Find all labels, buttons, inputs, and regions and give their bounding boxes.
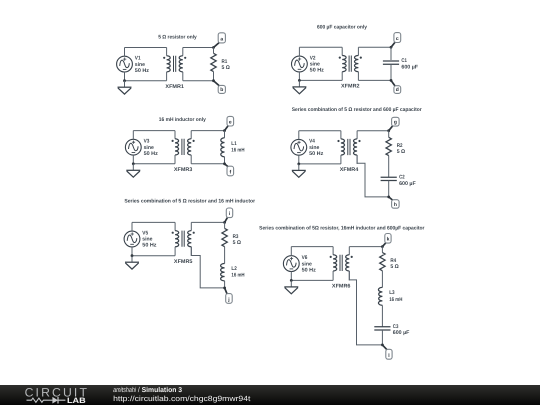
resistor R1	[211, 53, 216, 71]
wire stub to terminal i	[225, 217, 228, 223]
wire top rail primary	[125, 47, 167, 49]
wire L3-C3 series link	[381, 305, 383, 326]
svg-text:50 Hz: 50 Hz	[309, 151, 324, 157]
wire C3 bottom lead	[381, 330, 383, 345]
svg-text:e: e	[229, 120, 232, 126]
footer bar	[0, 385, 540, 406]
node g (terminal)	[392, 117, 400, 126]
wire top rail primary	[133, 130, 175, 132]
wire top rail secondary	[358, 46, 391, 48]
wire top rail secondary	[357, 130, 389, 132]
wire R4 top lead	[381, 247, 383, 253]
wire V1 bottom lead	[124, 72, 126, 81]
svg-text:5 Ω: 5 Ω	[397, 149, 406, 155]
node i junction	[223, 221, 226, 224]
wire L1 top lead	[224, 131, 226, 138]
svg-text:V6: V6	[302, 255, 308, 261]
wire L2 bottom lead	[224, 281, 226, 288]
svg-text:V3: V3	[144, 139, 150, 145]
wire R1 top lead	[213, 48, 215, 54]
node h (terminal)	[392, 200, 400, 209]
svg-text:Series combination of 5 Ω resi: Series combination of 5 Ω resistor and 6…	[292, 107, 422, 113]
svg-text:5 Ω: 5 Ω	[233, 240, 242, 246]
wire V5 top lead	[131, 222, 133, 231]
wire stub to terminal f	[225, 164, 229, 167]
svg-text:http://circuitlab.com/chgc8g9m: http://circuitlab.com/chgc8g9mwr94t	[113, 393, 251, 402]
transformer XFMR3	[172, 131, 195, 164]
wire top rail primary	[291, 246, 333, 248]
wire V6 bottom lead	[290, 272, 292, 281]
wire stub to terminal h	[389, 197, 394, 201]
svg-text:L2: L2	[231, 266, 236, 272]
ground	[292, 80, 306, 93]
wire stub to terminal j	[225, 288, 228, 295]
svg-text:50 Hz: 50 Hz	[144, 151, 159, 157]
node b (terminal)	[218, 85, 225, 93]
wire V2 bottom lead	[298, 72, 300, 81]
svg-text:amitshahi / Simulation 3: amitshahi / Simulation 3	[113, 385, 182, 393]
transformer XFMR6	[330, 247, 353, 281]
wire bottom rail secondary (dropped)	[349, 271, 382, 345]
svg-text:C3: C3	[393, 324, 399, 330]
node l junction	[381, 344, 384, 347]
wire V5 bottom lead	[131, 247, 133, 256]
inductor L3	[378, 287, 382, 305]
wire top rail primary	[132, 221, 175, 223]
node a (terminal)	[218, 33, 225, 43]
wire top rail primary	[299, 46, 342, 48]
node j junction	[223, 287, 226, 290]
svg-text:V2: V2	[310, 55, 316, 61]
node b junction	[212, 79, 215, 82]
svg-text:50 Hz: 50 Hz	[142, 243, 157, 249]
svg-text:XFMR3: XFMR3	[174, 167, 193, 173]
svg-text:5 Ω: 5 Ω	[390, 264, 399, 270]
svg-text:C1: C1	[401, 58, 407, 64]
voltage source V5 (sine)	[124, 231, 140, 247]
capacitor C2	[381, 177, 397, 180]
voltage source V4 (sine)	[291, 139, 307, 155]
ground	[292, 164, 306, 177]
svg-text:5 Ω resistor only: 5 Ω resistor only	[158, 34, 197, 40]
wire R1 bottom lead	[213, 72, 215, 81]
ground	[126, 164, 140, 177]
svg-text:16 mH: 16 mH	[231, 273, 244, 279]
logo resistor zigzag	[27, 398, 48, 402]
wire bottom rail secondary	[358, 79, 391, 81]
ground	[118, 81, 132, 94]
svg-text:h: h	[394, 202, 397, 208]
wire stub to terminal g	[389, 125, 394, 131]
wire C1 top lead	[390, 47, 392, 60]
wire V6 top lead	[290, 247, 292, 256]
node d (terminal)	[394, 86, 401, 94]
svg-text:c: c	[396, 36, 399, 42]
transformer XFMR1	[163, 48, 186, 81]
svg-text:k: k	[387, 237, 390, 243]
wire top rail secondary	[183, 47, 214, 49]
svg-text:50 Hz: 50 Hz	[302, 267, 317, 273]
svg-text:16 mH: 16 mH	[389, 297, 402, 303]
svg-text:g: g	[394, 120, 397, 126]
wire top rail secondary	[191, 221, 224, 223]
wire R3 top lead	[224, 222, 226, 228]
node f (terminal)	[227, 166, 234, 176]
wire R2-C2 series link	[388, 156, 390, 178]
node junction at V3/ground	[132, 162, 135, 165]
node i (terminal)	[226, 208, 232, 218]
svg-text:600 µF capacitor only: 600 µF capacitor only	[317, 24, 367, 30]
svg-text:XFMR2: XFMR2	[341, 84, 360, 90]
wire V4 top lead	[298, 131, 300, 140]
wire bottom rail primary	[132, 255, 175, 257]
wire C2 bottom lead	[388, 181, 390, 197]
voltage source V6 (sine)	[283, 256, 299, 272]
svg-text:600 µF: 600 µF	[401, 65, 418, 71]
wire top rail primary	[299, 130, 341, 132]
wire bottom rail secondary	[191, 163, 224, 165]
wire V2 top lead	[298, 47, 300, 56]
svg-text:V4: V4	[309, 139, 315, 145]
wire bottom rail primary	[291, 279, 333, 281]
wire C1 bottom lead	[390, 64, 392, 80]
voltage source V3 (sine)	[125, 139, 141, 155]
svg-text:50 Hz: 50 Hz	[135, 68, 150, 74]
wire stub to terminal d	[391, 80, 396, 86]
wire bottom rail secondary	[183, 80, 214, 82]
node g junction	[387, 129, 390, 132]
wire R4-L3 series link	[381, 271, 383, 288]
svg-text:XFMR6: XFMR6	[332, 284, 351, 290]
node junction at V2/ground	[298, 79, 301, 82]
node c (terminal)	[394, 33, 401, 43]
node junction at V5/ground	[131, 254, 134, 257]
inductor L1	[221, 138, 225, 157]
node f junction	[223, 162, 226, 165]
ground	[125, 256, 139, 269]
svg-text:V1: V1	[135, 56, 141, 62]
wire bottom rail primary	[125, 80, 167, 82]
wire stub to terminal l	[382, 345, 387, 350]
svg-text:XFMR1: XFMR1	[165, 84, 184, 90]
wire stub to terminal k	[382, 242, 386, 246]
wire V3 top lead	[132, 131, 134, 140]
svg-text:Series combination of 5 Ω resi: Series combination of 5 Ω resistor and 1…	[124, 199, 255, 205]
wire stub to terminal b	[214, 81, 220, 87]
node junction at V4/ground	[297, 163, 300, 166]
node e junction	[223, 129, 226, 132]
wire L1 bottom lead	[224, 157, 226, 164]
capacitor C3	[374, 327, 390, 330]
transformer XFMR5	[172, 222, 195, 255]
svg-text:XFMR4: XFMR4	[340, 167, 359, 173]
wire top rail secondary	[191, 130, 224, 132]
svg-text:LAB: LAB	[67, 395, 86, 404]
wire stub to terminal a	[214, 42, 220, 48]
wire stub to terminal c	[391, 42, 396, 48]
capacitor C1	[383, 61, 399, 64]
node a junction	[212, 46, 215, 49]
wire bottom rail primary	[133, 163, 175, 165]
inductor L2	[221, 264, 225, 281]
svg-text:b: b	[220, 87, 223, 93]
node junction at V1/ground	[123, 79, 126, 82]
wire R3-L2 series link	[224, 247, 226, 264]
node junction at V6/ground	[290, 279, 293, 282]
svg-text:16 mH inductor only: 16 mH inductor only	[159, 117, 206, 123]
svg-text:C2: C2	[399, 174, 405, 180]
svg-text:a: a	[220, 37, 223, 43]
node c junction	[390, 46, 393, 49]
voltage source V1 (sine)	[117, 56, 133, 72]
node d junction	[390, 79, 393, 82]
wire bottom rail primary	[299, 163, 341, 165]
wire V1 top lead	[124, 48, 126, 57]
ground	[284, 280, 298, 293]
wire V4 bottom lead	[298, 155, 300, 164]
svg-text:600 µF: 600 µF	[399, 181, 416, 187]
node e (terminal)	[227, 116, 234, 126]
node l (terminal)	[386, 349, 392, 359]
wire stub to terminal e	[225, 125, 229, 131]
wire bottom rail secondary (dropped)	[357, 155, 389, 197]
svg-text:V5: V5	[142, 230, 148, 236]
svg-text:5 Ω: 5 Ω	[222, 65, 231, 71]
logo wire	[48, 399, 53, 401]
transformer XFMR4	[337, 131, 360, 164]
logo diode	[52, 396, 58, 403]
svg-text:50 Hz: 50 Hz	[310, 68, 325, 74]
wire R2 top lead	[388, 131, 390, 138]
svg-text:16 mH: 16 mH	[231, 148, 244, 154]
wire bottom rail secondary (dropped)	[191, 247, 224, 288]
resistor R4	[380, 253, 385, 271]
wire top rail secondary	[349, 246, 382, 248]
node k (terminal)	[385, 234, 391, 244]
node j (terminal)	[226, 294, 233, 304]
svg-text:d: d	[396, 87, 399, 93]
wire V3 bottom lead	[132, 155, 134, 164]
voltage source V2 (sine)	[292, 56, 308, 72]
resistor R2	[386, 137, 391, 155]
svg-text:600 µF: 600 µF	[393, 330, 410, 336]
svg-text:L3: L3	[389, 290, 394, 296]
svg-text:Series combination of 5Ω resis: Series combination of 5Ω resistor, 16mH …	[259, 226, 424, 232]
transformer XFMR2	[339, 47, 362, 80]
svg-text:XFMR5: XFMR5	[174, 259, 193, 265]
svg-text:L1: L1	[231, 141, 236, 147]
node k junction	[381, 245, 384, 248]
wire bottom rail primary	[299, 79, 342, 81]
resistor R3	[222, 228, 227, 246]
node h junction	[387, 196, 390, 199]
